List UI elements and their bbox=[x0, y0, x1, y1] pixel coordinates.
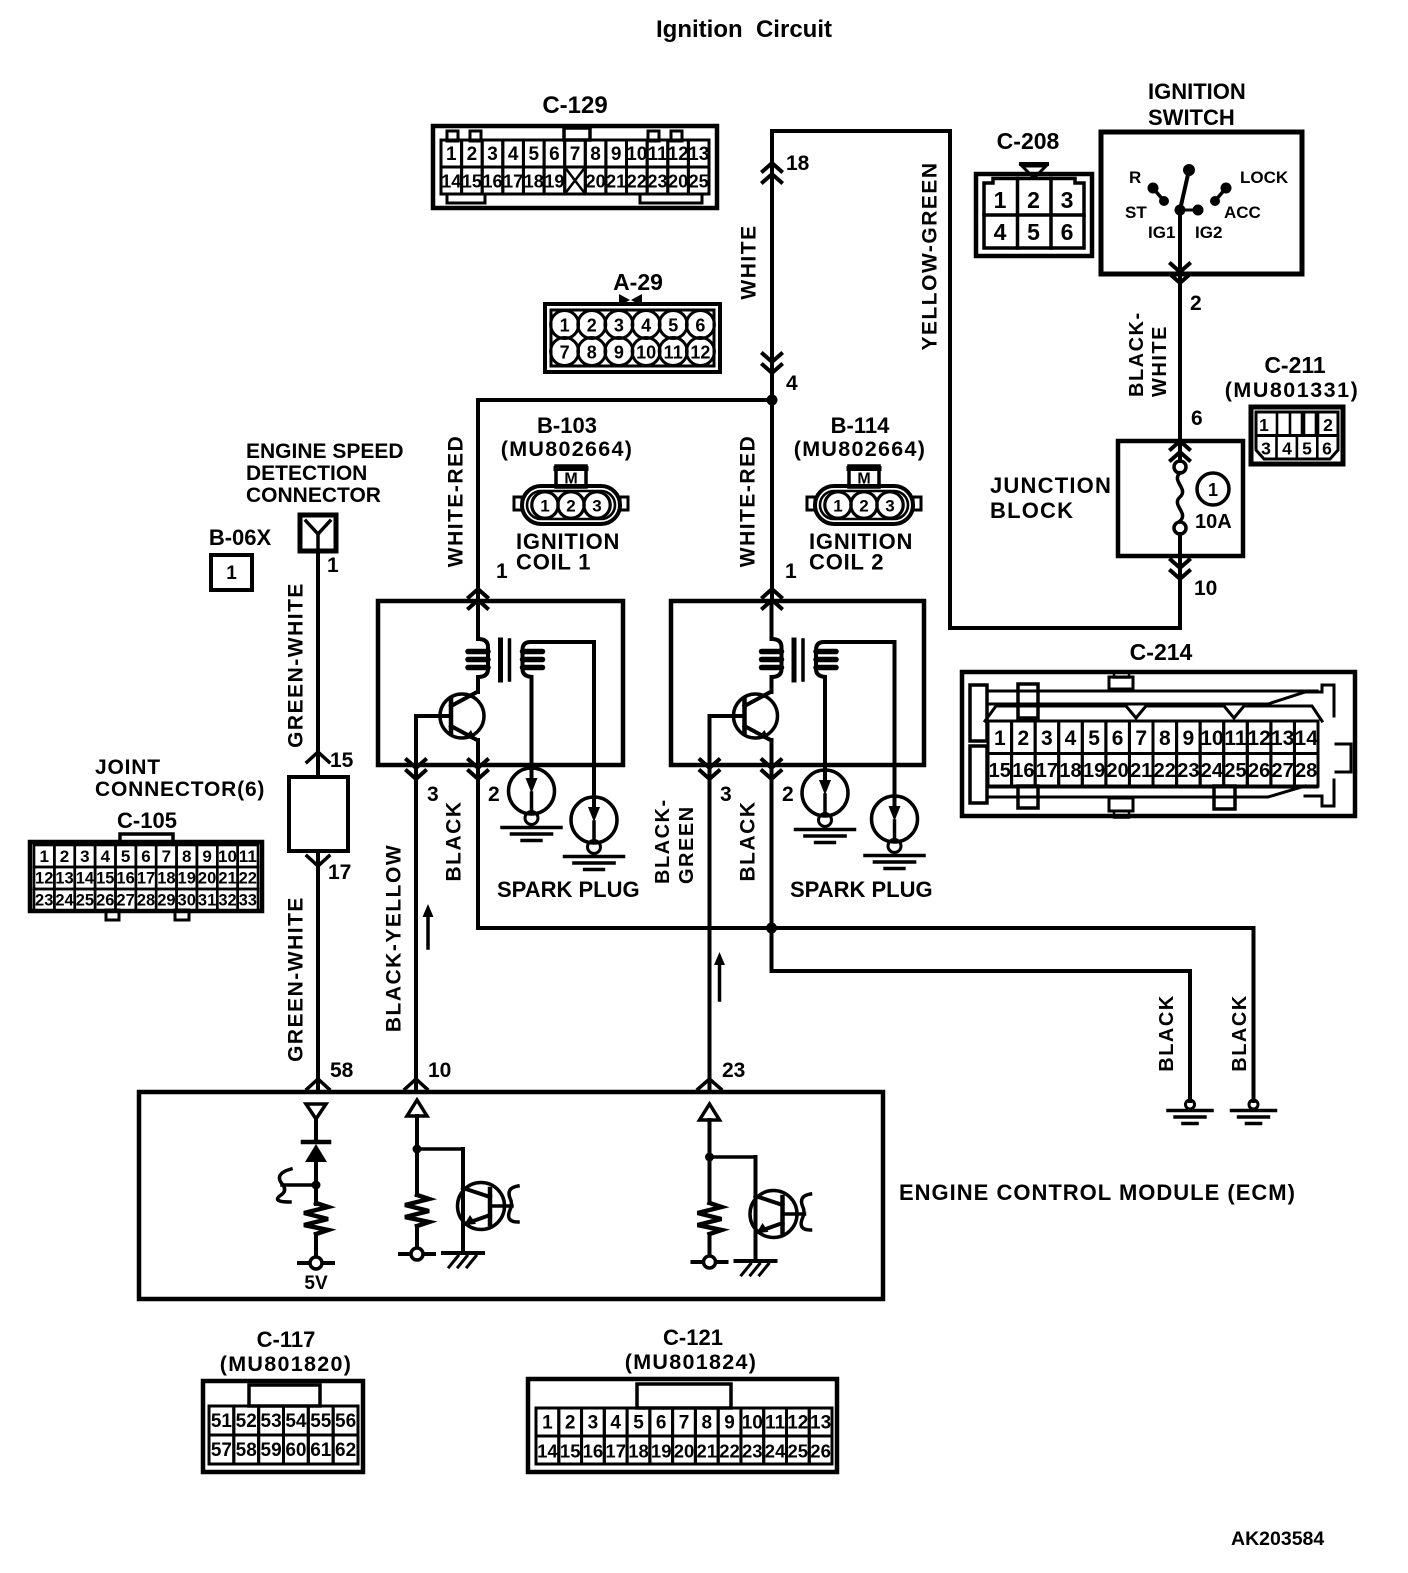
svg-text:56: 56 bbox=[335, 1411, 356, 1432]
svg-text:4: 4 bbox=[101, 847, 111, 866]
svg-text:15: 15 bbox=[462, 172, 482, 192]
svg-text:17: 17 bbox=[503, 172, 523, 192]
svg-text:3: 3 bbox=[1041, 727, 1053, 750]
svg-text:23: 23 bbox=[742, 1441, 763, 1462]
svg-text:5: 5 bbox=[1302, 439, 1312, 459]
connector B-06X bbox=[209, 525, 272, 590]
figure number AK203584 bbox=[1231, 1528, 1324, 1550]
svg-text:BLACK: BLACK bbox=[1229, 994, 1251, 1072]
wire BLACK-WHITE ignition switch pin 2 to junction block pin 6 bbox=[1126, 210, 1203, 460]
svg-text:6: 6 bbox=[1191, 407, 1203, 430]
svg-text:5: 5 bbox=[1027, 219, 1040, 245]
svg-text:(MU802664): (MU802664) bbox=[794, 437, 927, 461]
svg-text:1: 1 bbox=[560, 316, 570, 336]
svg-text:22: 22 bbox=[1154, 760, 1176, 782]
svg-text:LOCK: LOCK bbox=[1240, 168, 1289, 187]
svg-text:ST: ST bbox=[1125, 203, 1147, 222]
svg-text:57: 57 bbox=[211, 1440, 232, 1461]
svg-text:2: 2 bbox=[587, 316, 597, 336]
svg-text:SPARK PLUG: SPARK PLUG bbox=[497, 877, 640, 902]
svg-text:2: 2 bbox=[1027, 187, 1040, 213]
svg-text:WHITE-RED: WHITE-RED bbox=[445, 435, 468, 568]
svg-text:16: 16 bbox=[482, 172, 502, 192]
svg-text:33: 33 bbox=[239, 892, 257, 910]
svg-text:2: 2 bbox=[859, 497, 868, 516]
wire WHITE-RED to ignition coil 2 pin 1 bbox=[737, 435, 798, 608]
svg-text:10: 10 bbox=[1194, 577, 1217, 600]
svg-text:3: 3 bbox=[614, 316, 624, 336]
svg-text:25: 25 bbox=[689, 172, 709, 192]
svg-text:12: 12 bbox=[35, 870, 53, 888]
svg-text:3: 3 bbox=[588, 1413, 599, 1434]
svg-text:20: 20 bbox=[668, 172, 688, 192]
svg-text:Ignition Circuit: Ignition Circuit bbox=[656, 16, 832, 43]
svg-text:9: 9 bbox=[611, 144, 622, 165]
wire YELLOW-GREEN from junction block fuse to wire node bbox=[772, 131, 1217, 628]
svg-text:GREEN-WHITE: GREEN-WHITE bbox=[285, 896, 308, 1062]
svg-text:9: 9 bbox=[724, 1413, 735, 1434]
wire WHITE-RED to ignition coil 1 pin 1 bbox=[445, 400, 773, 608]
svg-text:12: 12 bbox=[690, 343, 710, 363]
ignition switch bbox=[1101, 79, 1302, 274]
svg-text:8: 8 bbox=[587, 343, 597, 363]
svg-text:3: 3 bbox=[592, 497, 601, 516]
svg-text:7: 7 bbox=[679, 1413, 690, 1434]
svg-text:1: 1 bbox=[39, 847, 48, 866]
svg-text:22: 22 bbox=[627, 172, 647, 192]
connector C-214 bbox=[962, 639, 1355, 818]
svg-text:BLACK: BLACK bbox=[1156, 994, 1178, 1072]
svg-text:15: 15 bbox=[96, 870, 114, 888]
svg-text:3: 3 bbox=[80, 847, 89, 866]
svg-text:11: 11 bbox=[664, 343, 683, 363]
svg-text:20: 20 bbox=[1106, 760, 1128, 782]
svg-text:55: 55 bbox=[310, 1411, 332, 1432]
svg-text:COIL 1: COIL 1 bbox=[516, 550, 591, 575]
svg-text:13: 13 bbox=[55, 870, 73, 888]
svg-text:19: 19 bbox=[651, 1441, 672, 1462]
svg-text:11: 11 bbox=[1224, 727, 1247, 750]
svg-text:4: 4 bbox=[786, 372, 798, 395]
svg-text:1: 1 bbox=[540, 497, 549, 516]
svg-text:SPARK PLUG: SPARK PLUG bbox=[790, 877, 933, 902]
svg-text:A-29: A-29 bbox=[613, 269, 663, 295]
ECM pin 58 input channel bbox=[306, 1104, 326, 1141]
svg-text:14: 14 bbox=[1295, 727, 1319, 750]
svg-text:5: 5 bbox=[121, 847, 130, 866]
engine speed detection connector symbol bbox=[300, 515, 336, 551]
coil 1 pin 3 arrow bbox=[407, 760, 439, 806]
label JOINT CONNECTOR(6) C-105 bbox=[95, 756, 265, 833]
svg-text:19: 19 bbox=[178, 870, 196, 888]
wire BLACK-GREEN coil2 pin3 to ECM pin 23 bbox=[652, 765, 745, 1092]
power transistor bbox=[416, 692, 484, 765]
svg-text:29: 29 bbox=[157, 892, 175, 910]
svg-text:18: 18 bbox=[524, 172, 544, 192]
svg-text:9: 9 bbox=[614, 343, 624, 363]
svg-text:2: 2 bbox=[566, 497, 575, 516]
svg-text:17: 17 bbox=[137, 870, 155, 888]
svg-text:7: 7 bbox=[570, 144, 581, 165]
wire BLACK-YELLOW coil1 pin3 to ECM pin 10 bbox=[383, 765, 452, 1092]
ignition coil secondary winding bbox=[523, 642, 595, 677]
svg-text:3: 3 bbox=[885, 497, 894, 516]
label engine speed detection connector bbox=[246, 440, 404, 507]
svg-text:IG1: IG1 bbox=[1148, 223, 1175, 242]
svg-text:25: 25 bbox=[1224, 760, 1246, 782]
svg-text:10: 10 bbox=[626, 144, 647, 165]
svg-text:2: 2 bbox=[1323, 415, 1333, 435]
svg-text:GREEN-WHITE: GREEN-WHITE bbox=[285, 582, 308, 748]
svg-text:59: 59 bbox=[261, 1440, 282, 1461]
svg-text:BLACK: BLACK bbox=[443, 801, 466, 882]
svg-text:58: 58 bbox=[330, 1059, 354, 1082]
svg-text:7: 7 bbox=[1135, 727, 1147, 750]
svg-text:6: 6 bbox=[656, 1413, 667, 1434]
connector B-103 (MU802664) ignition coil 1 bbox=[501, 413, 634, 575]
svg-text:21: 21 bbox=[697, 1441, 718, 1462]
zener diode bbox=[303, 1142, 329, 1204]
svg-text:(MU801824): (MU801824) bbox=[625, 1350, 758, 1374]
pull resistor bbox=[693, 1203, 727, 1268]
svg-text:6: 6 bbox=[1112, 727, 1124, 750]
ignition coil 2 box bbox=[671, 601, 924, 765]
svg-text:3: 3 bbox=[487, 144, 498, 165]
svg-text:18: 18 bbox=[786, 152, 810, 175]
wire GREEN-WHITE pin 1 to joint connector pin 15 bbox=[285, 551, 354, 777]
svg-text:WHITE-RED: WHITE-RED bbox=[737, 435, 760, 568]
svg-text:19: 19 bbox=[544, 172, 564, 192]
connector C-117 (MU801820) bbox=[203, 1327, 363, 1472]
svg-text:YELLOW-GREEN: YELLOW-GREEN bbox=[919, 161, 942, 350]
svg-text:8: 8 bbox=[182, 847, 191, 866]
svg-text:18: 18 bbox=[1059, 760, 1081, 782]
svg-text:12: 12 bbox=[787, 1413, 808, 1434]
svg-text:16: 16 bbox=[583, 1441, 604, 1462]
svg-text:61: 61 bbox=[310, 1440, 332, 1461]
svg-text:2: 2 bbox=[60, 847, 69, 866]
svg-text:12: 12 bbox=[1247, 727, 1270, 750]
svg-text:17: 17 bbox=[605, 1441, 626, 1462]
spark plug 1A bbox=[502, 677, 561, 841]
svg-text:11: 11 bbox=[239, 847, 257, 866]
svg-text:21: 21 bbox=[606, 172, 626, 192]
coil 1 pin 2 arrow bbox=[469, 760, 500, 806]
wire GREEN-WHITE joint connector pin 17 to ECM pin 58 bbox=[285, 851, 354, 1092]
svg-text:2: 2 bbox=[467, 144, 478, 165]
svg-text:BLACK: BLACK bbox=[737, 801, 760, 882]
svg-text:26: 26 bbox=[1248, 760, 1270, 782]
svg-text:19: 19 bbox=[1083, 760, 1105, 782]
svg-text:GREEN: GREEN bbox=[676, 805, 698, 884]
svg-text:BLOCK: BLOCK bbox=[990, 498, 1074, 523]
transformer core bbox=[501, 640, 510, 680]
svg-text:11: 11 bbox=[647, 144, 668, 165]
svg-text:8: 8 bbox=[702, 1413, 713, 1434]
svg-text:23: 23 bbox=[1177, 760, 1199, 782]
svg-text:9: 9 bbox=[1183, 727, 1195, 750]
svg-text:C-214: C-214 bbox=[1130, 639, 1193, 665]
driver transistor bbox=[443, 1183, 518, 1268]
svg-text:10A: 10A bbox=[1195, 511, 1232, 533]
svg-text:B-114: B-114 bbox=[831, 413, 890, 438]
svg-text:12: 12 bbox=[668, 144, 689, 165]
svg-text:25: 25 bbox=[788, 1441, 809, 1462]
svg-text:23: 23 bbox=[35, 892, 53, 910]
svg-text:6: 6 bbox=[1322, 439, 1332, 459]
svg-text:(MU801820): (MU801820) bbox=[220, 1352, 353, 1376]
svg-text:1: 1 bbox=[994, 187, 1007, 213]
svg-text:17: 17 bbox=[328, 861, 351, 884]
title: Ignition Circuit bbox=[656, 16, 832, 43]
svg-text:C-121: C-121 bbox=[663, 1325, 723, 1350]
label SPARK PLUG (right) bbox=[790, 877, 933, 902]
svg-text:16: 16 bbox=[116, 870, 134, 888]
svg-text:5: 5 bbox=[529, 144, 540, 165]
svg-text:BLACK-YELLOW: BLACK-YELLOW bbox=[383, 844, 406, 1032]
coil 2 pin 2 arrow bbox=[762, 760, 793, 806]
svg-text:1: 1 bbox=[994, 727, 1006, 750]
svg-text:13: 13 bbox=[688, 144, 709, 165]
svg-text:28: 28 bbox=[137, 892, 155, 910]
driver transistor bbox=[736, 1191, 811, 1276]
svg-text:C-208: C-208 bbox=[997, 128, 1060, 154]
ECM pin 10 driver channel bbox=[407, 1100, 463, 1253]
svg-text:24: 24 bbox=[1201, 760, 1224, 782]
svg-text:18: 18 bbox=[157, 870, 175, 888]
svg-text:31: 31 bbox=[198, 892, 216, 910]
svg-text:6: 6 bbox=[549, 144, 560, 165]
svg-text:27: 27 bbox=[1271, 760, 1293, 782]
svg-text:6: 6 bbox=[141, 847, 150, 866]
svg-text:54: 54 bbox=[285, 1411, 307, 1432]
ground right 1 bbox=[1156, 994, 1212, 1123]
resistor to 5V bbox=[299, 1203, 333, 1294]
svg-text:62: 62 bbox=[335, 1440, 356, 1461]
transformer core bbox=[794, 640, 803, 680]
svg-text:AK203584: AK203584 bbox=[1231, 1528, 1324, 1550]
signal pickup hook bbox=[278, 1169, 321, 1202]
svg-text:3: 3 bbox=[1061, 187, 1074, 213]
label SPARK PLUG (left) bbox=[497, 877, 640, 902]
svg-text:1: 1 bbox=[446, 144, 457, 165]
svg-text:23: 23 bbox=[647, 172, 667, 192]
ignition coil primary winding bbox=[762, 601, 782, 692]
svg-text:1: 1 bbox=[327, 554, 339, 577]
svg-text:24: 24 bbox=[765, 1441, 786, 1462]
svg-text:10: 10 bbox=[428, 1059, 451, 1082]
svg-text:1: 1 bbox=[785, 560, 797, 583]
svg-text:22: 22 bbox=[719, 1441, 740, 1462]
svg-text:CONNECTOR(6): CONNECTOR(6) bbox=[95, 778, 265, 801]
ignition coil secondary winding bbox=[816, 642, 895, 677]
ECM pin 23 driver channel bbox=[700, 1104, 756, 1261]
svg-text:2: 2 bbox=[488, 783, 500, 806]
svg-text:WHITE: WHITE bbox=[738, 224, 761, 299]
svg-text:C-211: C-211 bbox=[1264, 352, 1326, 378]
connector B-114 (MU802664) ignition coil 2 bbox=[794, 413, 927, 575]
svg-text:25: 25 bbox=[76, 892, 94, 910]
svg-text:20: 20 bbox=[586, 172, 606, 192]
pull resistor bbox=[400, 1195, 434, 1260]
svg-text:27: 27 bbox=[116, 892, 134, 910]
svg-text:(MU801331): (MU801331) bbox=[1225, 378, 1360, 402]
svg-text:2: 2 bbox=[1190, 292, 1202, 315]
wire WHITE from C-129 pin 18 to A-29 pin 4 and ignition coils bbox=[738, 131, 810, 601]
svg-text:1: 1 bbox=[226, 563, 237, 584]
svg-text:1: 1 bbox=[1259, 415, 1269, 435]
svg-text:10: 10 bbox=[636, 343, 656, 363]
svg-text:4: 4 bbox=[508, 144, 519, 165]
svg-text:22: 22 bbox=[239, 870, 257, 888]
svg-text:7: 7 bbox=[560, 343, 570, 363]
svg-text:14: 14 bbox=[76, 870, 95, 888]
svg-text:IG2: IG2 bbox=[1195, 223, 1222, 242]
svg-text:32: 32 bbox=[218, 892, 236, 910]
svg-text:1: 1 bbox=[833, 497, 842, 516]
svg-text:10: 10 bbox=[742, 1413, 763, 1434]
svg-text:5: 5 bbox=[1088, 727, 1100, 750]
svg-text:4: 4 bbox=[1065, 727, 1077, 750]
svg-text:23: 23 bbox=[722, 1059, 745, 1082]
connector C-129 bbox=[433, 92, 717, 208]
svg-text:5V: 5V bbox=[304, 1273, 328, 1294]
junction node blacks bbox=[766, 923, 777, 934]
svg-text:ENGINE SPEED: ENGINE SPEED bbox=[246, 440, 404, 463]
svg-text:BLACK-: BLACK- bbox=[652, 798, 674, 884]
joint connector pass-through box bbox=[289, 777, 348, 851]
svg-text:15: 15 bbox=[330, 749, 354, 772]
svg-text:52: 52 bbox=[236, 1411, 257, 1432]
svg-text:9: 9 bbox=[202, 847, 211, 866]
svg-text:5: 5 bbox=[668, 316, 678, 336]
svg-text:ENGINE CONTROL MODULE (ECM): ENGINE CONTROL MODULE (ECM) bbox=[899, 1180, 1296, 1205]
wire BLACK coil2 pin2 to ground bbox=[737, 765, 1191, 1101]
fuse 1 10A bbox=[1174, 441, 1232, 556]
svg-text:1: 1 bbox=[1208, 480, 1218, 500]
spark plug 2B bbox=[865, 642, 924, 869]
svg-text:4: 4 bbox=[610, 1413, 621, 1434]
svg-text:4: 4 bbox=[1282, 439, 1292, 459]
svg-text:3: 3 bbox=[720, 783, 732, 806]
svg-text:4: 4 bbox=[994, 219, 1007, 245]
svg-text:C-117: C-117 bbox=[257, 1327, 316, 1352]
svg-text:COIL 2: COIL 2 bbox=[809, 550, 884, 575]
svg-text:6: 6 bbox=[1061, 219, 1074, 245]
ground right 2 bbox=[1229, 994, 1276, 1123]
svg-text:58: 58 bbox=[236, 1440, 257, 1461]
svg-text:BLACK-: BLACK- bbox=[1126, 311, 1148, 397]
svg-text:7: 7 bbox=[162, 847, 171, 866]
ignition coil primary winding bbox=[468, 601, 488, 692]
engine control module (ECM) box bbox=[139, 1092, 883, 1299]
svg-text:11: 11 bbox=[765, 1413, 786, 1434]
svg-text:16: 16 bbox=[1012, 760, 1034, 782]
svg-text:C-105: C-105 bbox=[117, 808, 177, 833]
svg-text:CONNECTOR: CONNECTOR bbox=[246, 484, 381, 507]
svg-text:JUNCTION: JUNCTION bbox=[990, 473, 1112, 498]
svg-text:15: 15 bbox=[989, 760, 1011, 782]
label ENGINE CONTROL MODULE (ECM) bbox=[899, 1180, 1296, 1205]
svg-text:5: 5 bbox=[633, 1413, 644, 1434]
connector C-208 bbox=[976, 128, 1092, 256]
svg-text:C-129: C-129 bbox=[542, 92, 607, 119]
ignition coil 1 box bbox=[378, 601, 623, 765]
svg-text:53: 53 bbox=[261, 1411, 282, 1432]
svg-text:R: R bbox=[1129, 168, 1141, 187]
svg-text:4: 4 bbox=[641, 316, 651, 336]
svg-text:30: 30 bbox=[178, 892, 196, 910]
spark plug 2A bbox=[796, 677, 855, 843]
svg-text:DETECTION: DETECTION bbox=[246, 462, 367, 485]
svg-text:21: 21 bbox=[218, 870, 236, 888]
node at pin4 junction bbox=[767, 395, 778, 406]
svg-text:WHITE: WHITE bbox=[1149, 325, 1171, 397]
spark plug 1B bbox=[565, 642, 624, 870]
svg-text:28: 28 bbox=[1295, 760, 1317, 782]
svg-text:8: 8 bbox=[1159, 727, 1171, 750]
svg-text:13: 13 bbox=[1271, 727, 1294, 750]
svg-text:21: 21 bbox=[1130, 760, 1152, 782]
svg-text:18: 18 bbox=[628, 1441, 649, 1462]
svg-text:(MU802664): (MU802664) bbox=[501, 437, 634, 461]
svg-text:2: 2 bbox=[565, 1413, 576, 1434]
svg-text:20: 20 bbox=[198, 870, 216, 888]
connector A-29 bbox=[545, 269, 720, 372]
svg-text:14: 14 bbox=[537, 1441, 558, 1462]
svg-text:ACC: ACC bbox=[1224, 203, 1261, 222]
connector C-121 (MU801824) bbox=[528, 1325, 837, 1472]
svg-text:8: 8 bbox=[590, 144, 601, 165]
svg-text:IGNITION: IGNITION bbox=[1148, 79, 1246, 104]
svg-text:10: 10 bbox=[218, 847, 237, 866]
svg-text:10: 10 bbox=[1200, 727, 1223, 750]
coil 2 pin 3 arrow bbox=[700, 760, 731, 806]
svg-text:B-103: B-103 bbox=[537, 413, 597, 438]
svg-text:3: 3 bbox=[427, 783, 439, 806]
svg-text:1: 1 bbox=[542, 1413, 553, 1434]
connector C-105 bbox=[30, 834, 262, 920]
svg-text:20: 20 bbox=[674, 1441, 695, 1462]
svg-text:14: 14 bbox=[441, 172, 461, 192]
junction block bbox=[990, 441, 1243, 556]
svg-text:1: 1 bbox=[496, 560, 508, 583]
svg-text:JOINT: JOINT bbox=[95, 756, 161, 779]
svg-text:2: 2 bbox=[782, 783, 794, 806]
svg-text:2: 2 bbox=[1018, 727, 1030, 750]
svg-text:13: 13 bbox=[810, 1413, 831, 1434]
svg-text:51: 51 bbox=[211, 1411, 233, 1432]
power transistor bbox=[710, 692, 778, 765]
svg-text:26: 26 bbox=[810, 1441, 831, 1462]
svg-text:6: 6 bbox=[695, 316, 705, 336]
svg-text:3: 3 bbox=[1261, 439, 1271, 459]
svg-text:60: 60 bbox=[285, 1440, 306, 1461]
svg-text:SWITCH: SWITCH bbox=[1148, 105, 1235, 130]
svg-text:17: 17 bbox=[1036, 760, 1058, 782]
svg-text:15: 15 bbox=[560, 1441, 581, 1462]
wire BLACK coil1 pin2 to ground bbox=[443, 765, 1254, 1101]
connector C-211 (MU801331) bbox=[1225, 352, 1360, 464]
svg-text:26: 26 bbox=[96, 892, 114, 910]
svg-text:24: 24 bbox=[55, 892, 74, 910]
svg-text:B-06X: B-06X bbox=[209, 525, 272, 550]
